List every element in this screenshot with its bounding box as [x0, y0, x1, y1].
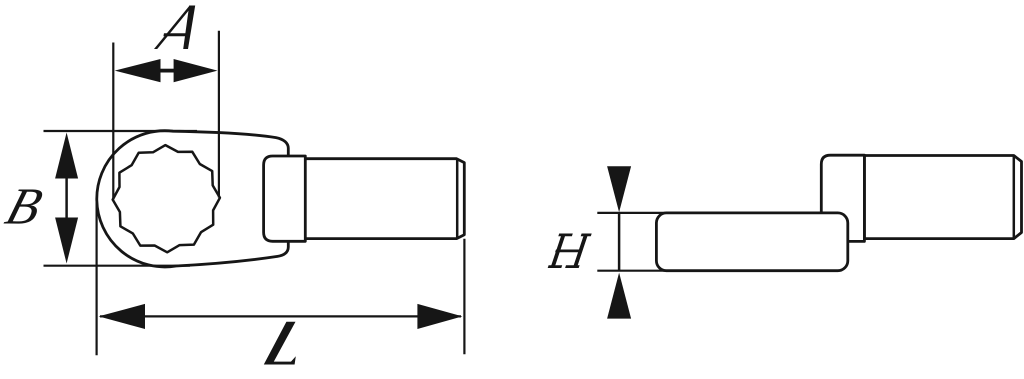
dim B top extension line: [44, 130, 198, 132]
label L (custom serif italic): [264, 322, 296, 365]
dim H connector bar: [618, 214, 621, 270]
dim L right extension line: [463, 239, 465, 355]
ring 12-point inner profile: [113, 145, 220, 252]
dim A left extension line: [112, 43, 114, 200]
dim A right extension line: [218, 31, 220, 198]
side view: shank bar: [864, 156, 1021, 239]
dim B up arrowhead: [55, 133, 78, 179]
dim L left arrowhead: [99, 304, 145, 329]
dim B down arrowhead: [55, 218, 78, 264]
dim A connector bar: [160, 69, 174, 73]
dim A right arrowhead: [174, 59, 218, 82]
dim H bottom extension line: [597, 270, 668, 272]
shank bar (left view): [300, 159, 464, 239]
side view: collar: [821, 155, 864, 241]
side view: ring plate: [656, 213, 847, 271]
label H (custom serif italic): [550, 234, 566, 269]
dim H top arrowhead: [607, 166, 631, 212]
shank end chamfer line (left view): [456, 159, 459, 239]
dim B bottom extension line: [44, 265, 191, 267]
dim H top extension line: [597, 212, 668, 214]
dim B connector bar: [65, 179, 68, 218]
collar (left view): [264, 156, 306, 241]
dim H bottom arrowhead: [607, 273, 631, 319]
dimension graphics: [44, 31, 669, 356]
ring head outer outline: [97, 131, 289, 267]
dim L left extension line: [95, 198, 97, 355]
dim L dimension line: [100, 315, 461, 317]
side view: shank end chamfer line: [1013, 156, 1016, 239]
label A (custom sans italic): [154, 6, 193, 50]
dim L right arrowhead: [417, 304, 462, 329]
dim A left arrowhead: [115, 59, 161, 82]
